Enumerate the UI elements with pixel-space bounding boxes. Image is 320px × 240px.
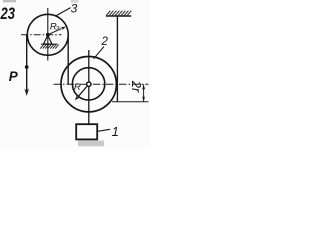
ceiling hatching (106, 11, 131, 16)
force P arrowhead (24, 89, 29, 97)
svg-text:23: 23 (0, 5, 15, 23)
scan smudge above label 3 (71, 0, 79, 3)
dimension line 2r (143, 84, 145, 101)
pivot base line (41, 43, 57, 45)
radius R3 arrow (49, 29, 61, 34)
pulley 3 wheel (27, 14, 68, 55)
pulley P rope (left tangent of pulley 3 down to force point) (26, 35, 28, 67)
pulley 3 crosshair vertical (47, 8, 49, 61)
pulley 3 centerline dash-dot (21, 34, 62, 36)
pivot support triangle (44, 35, 53, 44)
dimension extension line bottom (112, 101, 149, 103)
weight 1 block (76, 124, 97, 139)
scan smudge under weight (78, 141, 104, 147)
pulley 2 inner drum (72, 68, 104, 100)
dimension arrowhead down (142, 96, 145, 102)
pivot ground hatching (40, 45, 59, 49)
pulley 2 axle hub (87, 82, 91, 86)
svg-text:3: 3 (71, 2, 78, 16)
dimension arrowhead up (142, 84, 145, 90)
wire: ceiling rope tangent to pulley 2 outer rim (116, 16, 118, 102)
radius R arrow of inner drum (78, 85, 88, 96)
force P arrow shaft (26, 67, 28, 93)
leader line for label 1 (98, 129, 111, 131)
pulley 2 centerline dash-dot (54, 83, 149, 85)
ceiling support line (106, 15, 131, 17)
force application dot (25, 65, 29, 69)
scan smudge top-left (3, 0, 16, 2)
svg-text:1: 1 (112, 124, 119, 139)
svg-text:3: 3 (56, 25, 60, 32)
pulley 2 vertical crosshair and hanging rope to weight (88, 50, 90, 124)
svg-text:P: P (9, 69, 19, 84)
pulley 2 outer rim (61, 56, 116, 111)
wire: rope pulley3 right tangent down to pulley 2 inner drum (67, 35, 69, 85)
leader line for label 2 (94, 47, 104, 59)
pulley 3 axle hub dot (46, 33, 50, 37)
svg-text:R: R (74, 82, 81, 93)
svg-text:2: 2 (101, 36, 109, 48)
leader line for label 3 (56, 8, 70, 16)
svg-text:2r: 2r (129, 80, 144, 93)
